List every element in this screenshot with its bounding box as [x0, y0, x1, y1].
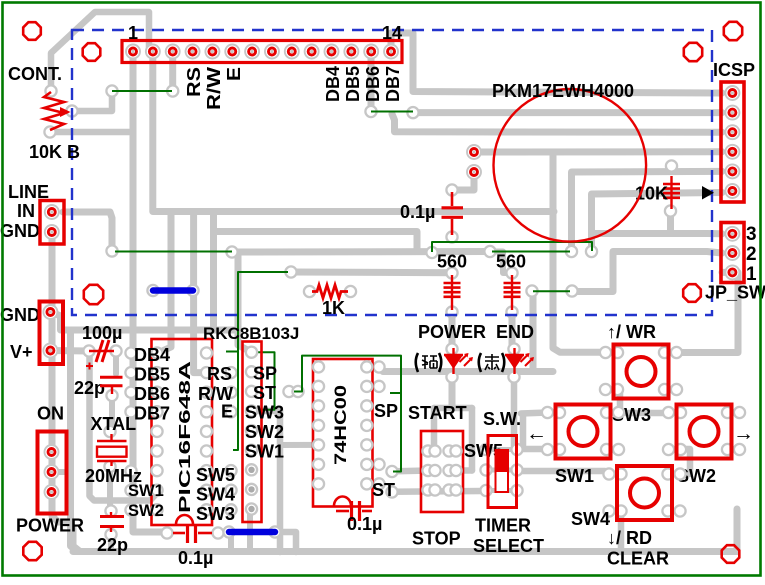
- svg-text:0.1µ: 0.1µ: [178, 548, 213, 568]
- wire SW2 bottom to SW4 top-right: [676, 449, 690, 474]
- svg-text:JP_SW: JP_SW: [705, 283, 765, 303]
- svg-text:ON: ON: [37, 404, 64, 424]
- wire LINE GND vertical rail left: [52, 232, 80, 552]
- svg-text:V+: V+: [10, 342, 33, 362]
- via jumper B2 ends: [223, 526, 234, 537]
- resistor 1K symbol: [312, 285, 348, 298]
- svg-text:22p: 22p: [97, 535, 128, 555]
- wire header pin14 up-over to ICSP pin1: [391, 33, 722, 93]
- wire POWER LED to START connector: [449, 377, 456, 408]
- svg-text:0.1µ: 0.1µ: [347, 514, 382, 534]
- wire header pin13 stub: [368, 52, 375, 112]
- label (green): [416, 353, 418, 372]
- wire rail to SW2 area vertical: [734, 509, 741, 552]
- jumper wire B2: [229, 529, 275, 536]
- svg-text:ICSP: ICSP: [713, 60, 755, 80]
- svg-text:IN: IN: [17, 201, 35, 221]
- via CONT wiper: [66, 105, 77, 116]
- svg-text:3: 3: [746, 224, 757, 245]
- svg-text:STOP: STOP: [412, 529, 461, 549]
- green wire pin3 net: [112, 90, 172, 92]
- svg-text:POWER: POWER: [418, 322, 486, 342]
- green wire END row: [533, 290, 570, 292]
- wire CONT wiper to via: [72, 91, 112, 111]
- wire CONT bottom to pin1 vertical: [50, 129, 133, 136]
- resistor 10K pullup: [670, 176, 672, 209]
- via PIC column x231: [225, 367, 236, 378]
- wire LINE IN to via: [63, 212, 112, 251]
- resistor network RN1 outline: [243, 342, 262, 523]
- wire CONT top to header pin2: [51, 12, 149, 91]
- via XTAL: [104, 426, 115, 437]
- wire 10K bottom to JP_SW pin3: [667, 211, 674, 234]
- wire via to ICSP pin2: [413, 109, 722, 116]
- via RKC ST oval: [283, 386, 294, 397]
- GND V+ pads: [43, 305, 57, 319]
- wire 100u left down to PIC: [90, 355, 158, 501]
- jumper wire B1: [153, 287, 193, 294]
- switch SW3 legs: [600, 347, 611, 358]
- via DB6 row: [365, 106, 376, 117]
- svg-text:S.W.: S.W.: [483, 409, 521, 429]
- IC U1 notch: [176, 515, 193, 525]
- switch SW1 legs: [542, 407, 553, 418]
- svg-text:SW1: SW1: [555, 466, 594, 486]
- switch SW2 legs: [663, 407, 674, 418]
- svg-text:DB6: DB6: [363, 66, 383, 102]
- switch SW1 outline: [556, 405, 611, 459]
- svg-text:DB7: DB7: [134, 404, 170, 424]
- svg-text:1: 1: [128, 23, 138, 43]
- switch SW4 outline: [617, 466, 672, 520]
- wire via to ICSP pin6: [592, 193, 723, 252]
- wire V+ to 100u cap: [51, 347, 89, 355]
- wire bottom ground rail: [73, 548, 737, 555]
- wire x=280 to 74HC00 pin5: [280, 442, 318, 448]
- wire GND pad elbow to horizontal y=330: [51, 312, 238, 330]
- via 100u pads: [83, 345, 94, 356]
- LCD header connector outline: [122, 41, 402, 63]
- trimmer wiper arrow: [60, 107, 71, 117]
- via 10K: [666, 160, 677, 171]
- via 0.1u top cap: [446, 184, 457, 195]
- svg-text:PIC16F648A: PIC16F648A: [177, 360, 194, 513]
- wire SW3 bottom to SW1/SW2 top: [617, 390, 624, 412]
- switch SW4 plunger: [630, 479, 659, 508]
- resistor 560 #1: [451, 275, 453, 310]
- wire 74HC00 to START row2: [395, 467, 430, 474]
- svg-text:SW3: SW3: [196, 504, 235, 524]
- green wire RKC ST to 74HC00: [294, 356, 401, 472]
- mounting hole top-left inner: [83, 43, 101, 61]
- wire via y=291 up to LED row: [530, 292, 537, 372]
- green wire DB6 net: [371, 111, 413, 113]
- wire header pin1 down to 0.1u cap: [133, 52, 166, 532]
- wire SW5 to SW1 top-left: [521, 413, 548, 414]
- wire JP_SW pin2 loop: [572, 252, 722, 292]
- svg-text:14: 14: [382, 23, 402, 43]
- capacitor 100u symbol: [89, 350, 114, 353]
- via 22p bottom: [106, 390, 117, 401]
- green wire RKC SW1 net: [233, 272, 288, 450]
- wire RKC row4 to vertical x=280: [253, 408, 280, 415]
- mounting hole top-right inner: [684, 43, 702, 61]
- svg-text:SW5: SW5: [196, 465, 235, 485]
- switch SW2 outline: [677, 405, 732, 459]
- svg-text:SW4: SW4: [196, 485, 235, 505]
- via near pin3: [106, 85, 117, 96]
- mounting hole left-mid: [84, 285, 103, 304]
- switch SW5 slider: [496, 450, 509, 492]
- IC U2 left pads: [313, 361, 324, 372]
- wire via to RKC pin1: [232, 252, 252, 352]
- svg-text:74HC00: 74HC00: [331, 385, 350, 465]
- svg-text:SW2: SW2: [128, 502, 164, 520]
- via PIC column x131: [125, 347, 136, 358]
- svg-text:RKC8B103J: RKC8B103J: [203, 324, 299, 343]
- wire via to ICSP pin5: [572, 171, 723, 251]
- svg-text:CONT.: CONT.: [8, 64, 62, 84]
- mounting hole bottom-right: [722, 545, 740, 563]
- JP_SW pads: [725, 227, 739, 241]
- svg-text:DB4: DB4: [323, 66, 343, 102]
- wire SW4 bottom-left to rail: [618, 511, 625, 553]
- ON connector pads: [45, 445, 59, 459]
- svg-text:E: E: [224, 67, 244, 81]
- wire START row3 rail: [392, 488, 482, 495]
- capacitor 0.1u PIC: [173, 532, 185, 535]
- svg-text:1K: 1K: [322, 298, 345, 318]
- green wire 560-1 to via: [432, 242, 592, 252]
- capacitor 22p2 symbol: [110, 512, 112, 515]
- switch SW2 plunger: [690, 417, 719, 446]
- svg-text:R/W: R/W: [204, 67, 224, 110]
- svg-text:0.1µ: 0.1µ: [400, 202, 435, 222]
- svg-text:22p: 22p: [74, 378, 105, 398]
- IC U1 PIC16F648A outline: [152, 339, 213, 525]
- mounting hole JP_SW: [683, 284, 701, 302]
- LCD header pads 1-14: [126, 45, 140, 59]
- label (red): [479, 353, 481, 372]
- wire END LED down to SW5: [511, 372, 518, 450]
- green wire LINE net: [115, 251, 232, 253]
- wire buzzer drop vertical to SW3: [553, 152, 606, 352]
- svg-text:↑/ WR: ↑/ WR: [607, 322, 656, 342]
- via 0.1u PIC pads: [161, 527, 172, 538]
- IC U1 left pads: [151, 347, 162, 358]
- board outline dashed: [72, 30, 712, 315]
- via LED END: [508, 343, 519, 354]
- wire horizontal y=371.5 LED row: [383, 368, 553, 375]
- buzzer PKM17EWH4000 circle: [494, 89, 647, 242]
- via LED POWER: [446, 343, 457, 354]
- svg-text:2: 2: [746, 244, 757, 265]
- wire 22p to XTAL top: [109, 399, 115, 428]
- wire horizontal y=211 RS net: [171, 208, 554, 215]
- buzzer pin pads: [467, 145, 481, 159]
- via CONT top: [45, 85, 56, 96]
- svg-text:POWER: POWER: [16, 516, 84, 536]
- LED END red symbol: [505, 354, 524, 356]
- switch SW5 outline: [488, 436, 517, 508]
- via green row 1: [226, 246, 237, 257]
- green wire 560-2 row: [492, 251, 570, 253]
- wire XTAL bottom: [107, 468, 113, 509]
- wire buzzer pin1 to ICSP pin4: [478, 148, 722, 155]
- svg-text:10K B: 10K B: [29, 142, 80, 162]
- via 22p2 bottom: [105, 529, 116, 540]
- JP_SW connector outline: [721, 223, 744, 283]
- svg-text:XTAL: XTAL: [91, 414, 137, 434]
- svg-text:→: →: [733, 422, 754, 445]
- svg-text:ST: ST: [372, 480, 395, 500]
- via 1K pads: [304, 286, 315, 297]
- svg-text:SW2: SW2: [245, 422, 284, 442]
- capacitor 0.1u 74HC00: [336, 510, 349, 513]
- wire jumper right pad to rail: [275, 532, 296, 552]
- wire vertical x=280 to rail: [277, 410, 284, 552]
- wire header pin3 stub: [169, 52, 176, 91]
- wire to ICSP pin3: [392, 114, 722, 132]
- wire 560-1 bottom to POWER LED: [449, 312, 456, 349]
- via 560 row: [426, 247, 437, 258]
- wire buzzer pin2 to 0.1u cap: [452, 172, 474, 190]
- via y=291 row: [526, 285, 537, 296]
- wire SW5 row2 to SW4 top-left: [519, 471, 612, 474]
- svg-text:←: ←: [526, 422, 547, 445]
- wire elbow to 560-2: [490, 252, 512, 274]
- IC U2 notch: [334, 497, 351, 507]
- capacitor 22p1 symbol: [100, 376, 123, 379]
- svg-text:SW1: SW1: [128, 482, 164, 500]
- switch SW3 plunger: [627, 357, 656, 386]
- ON connector outline: [38, 432, 67, 514]
- switch SW3 outline: [614, 345, 669, 399]
- trimmer VR1 zigzag: [44, 92, 64, 130]
- via 560-2: [506, 267, 517, 278]
- via LINE in: [106, 245, 117, 256]
- svg-text:ST: ST: [253, 383, 276, 403]
- svg-text:SW3: SW3: [245, 403, 284, 423]
- svg-text:END: END: [496, 322, 534, 342]
- LINE connector outline: [40, 201, 64, 245]
- wire vertical jog net y=231: [210, 212, 217, 331]
- START pads: [422, 445, 433, 456]
- svg-text:560: 560: [496, 252, 526, 272]
- START connector outline: [421, 431, 463, 512]
- wire jumper left pad to rail: [228, 534, 234, 552]
- svg-text:DB5: DB5: [343, 66, 363, 102]
- svg-text:DB6: DB6: [134, 384, 170, 404]
- switch SW1 plunger: [569, 417, 598, 446]
- mounting hole top-right outer: [724, 22, 742, 40]
- wire header pin2 down jog to PIC pin1: [153, 52, 171, 353]
- svg-text:SELECT: SELECT: [473, 536, 544, 556]
- switch SW4 legs: [603, 468, 614, 479]
- svg-text:DB7: DB7: [383, 66, 403, 102]
- svg-text:SP: SP: [374, 401, 398, 421]
- wire JP_SW pin1 to SW3 right legs: [678, 272, 738, 352]
- wire 100u to 22p: [113, 357, 119, 374]
- svg-text:TIMER: TIMER: [475, 516, 531, 536]
- mounting hole top-left outer: [23, 22, 41, 40]
- IC U2 right pads: [361, 361, 372, 372]
- wire RS net down to PIC: [194, 212, 207, 373]
- wire ON pad stub: [52, 469, 71, 475]
- wire via row y=252: [232, 248, 490, 256]
- svg-text:CLEAR: CLEAR: [607, 549, 669, 569]
- svg-text:SW1: SW1: [245, 442, 284, 462]
- via 560-1: [446, 267, 457, 278]
- ICSP connector outline: [721, 82, 744, 202]
- LED POWER green symbol: [444, 354, 463, 356]
- ICSP pads: [725, 86, 739, 100]
- wire 560-1 top row: [291, 269, 452, 277]
- capacitor 0.1u top: [451, 192, 454, 206]
- svg-text:RS: RS: [207, 364, 232, 384]
- svg-text:SW4: SW4: [571, 509, 610, 529]
- svg-text:START: START: [408, 403, 467, 423]
- via jumper B1 ends: [147, 285, 158, 296]
- mounting hole bottom-left: [23, 542, 41, 560]
- svg-text:GND: GND: [0, 305, 40, 325]
- wire RKC pin9 to rail: [247, 509, 253, 552]
- svg-text:RS: RS: [184, 67, 204, 97]
- svg-text:560: 560: [437, 252, 467, 272]
- arrow 10K: [702, 186, 714, 200]
- via 74HC00 right extra: [386, 466, 397, 477]
- SW5 pads: [483, 447, 521, 452]
- svg-text:E: E: [221, 402, 233, 422]
- wire vertical x=70 power net: [71, 330, 79, 552]
- resistor 560 #2: [511, 275, 513, 310]
- RN1 pads: [246, 347, 257, 358]
- IC U2 74HC00 outline: [313, 359, 373, 507]
- wire 560-2 bottom to END LED: [509, 312, 516, 349]
- svg-text:SP: SP: [253, 364, 277, 384]
- svg-text:GND: GND: [0, 221, 40, 241]
- wire 22p2 to bottom rail: [108, 536, 114, 552]
- GND V+ connector outline: [40, 302, 64, 365]
- svg-text:DB5: DB5: [134, 365, 170, 385]
- svg-text:DB4: DB4: [134, 345, 170, 365]
- svg-text:↓/ RD: ↓/ RD: [607, 528, 652, 548]
- green wire RKC pin1 loop: [252, 352, 275, 410]
- via CONT bottom: [44, 126, 55, 137]
- crystal X1 symbol: [110, 434, 112, 441]
- LINE connector pads: [45, 205, 59, 219]
- IC U1 right pads: [201, 347, 212, 358]
- svg-text:PKM17EWH4000: PKM17EWH4000: [492, 81, 634, 101]
